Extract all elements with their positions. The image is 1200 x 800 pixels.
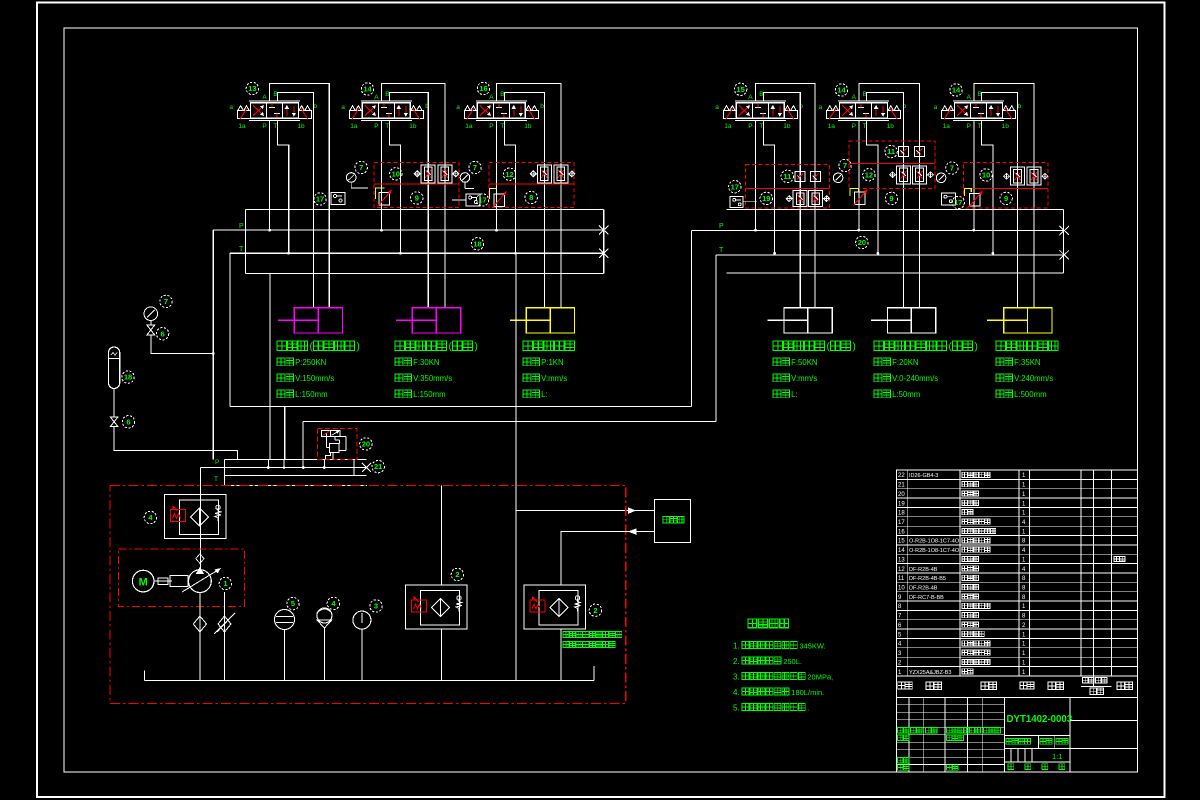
- gauge E: [936, 173, 946, 183]
- svg-text:1b: 1b: [1002, 123, 1010, 130]
- left bus top rail: [245, 208, 603, 210]
- svg-text:DF-R2B-4B: DF-R2B-4B: [909, 567, 938, 573]
- svg-text:180L/min.: 180L/min.: [791, 688, 824, 697]
- air breather: [317, 608, 332, 623]
- svg-text:1b: 1b: [887, 123, 895, 130]
- technical requirements title: [748, 619, 757, 628]
- valve 13 wire P down to P rail: [269, 120, 271, 230]
- balloon label 18: [471, 238, 483, 250]
- valve 14 left cell crossed arrows: [957, 105, 968, 116]
- balloon label 9: [411, 192, 423, 204]
- balloon label 14: [950, 84, 962, 96]
- svg-text:L:150mm: L:150mm: [413, 390, 446, 399]
- valve 13 solenoid end boxes: [237, 111, 250, 119]
- small sq C1: [795, 172, 805, 182]
- balloon label 14: [835, 84, 847, 96]
- check valve E1: [1011, 167, 1025, 185]
- directional valve 14 body: [362, 103, 410, 119]
- valve 13 wire A up-over to cylinder: [270, 84, 330, 308]
- valve 16 left cell crossed arrows: [480, 105, 491, 116]
- svg-text:A: A: [967, 94, 972, 101]
- variable pump: [189, 570, 212, 593]
- check valve C1: [793, 191, 807, 207]
- svg-text:1b: 1b: [524, 123, 532, 130]
- balloon label 6: [122, 416, 134, 428]
- svg-text:YZX25A&JBZ-B3: YZX25A&JBZ-B3: [909, 670, 952, 676]
- svg-text:17: 17: [316, 195, 324, 204]
- check valve D1: [897, 166, 911, 184]
- svg-text:1: 1: [223, 579, 227, 588]
- right bus T riser: [715, 255, 717, 422]
- red dashed box C (valve 15 module): [746, 165, 830, 209]
- check valve E2: [1027, 167, 1041, 185]
- cylinder body: [888, 308, 936, 333]
- valve 13 left cell crossed arrows: [253, 105, 264, 116]
- svg-text:F:20KN: F:20KN: [892, 358, 918, 367]
- balloon label 17: [314, 193, 326, 205]
- svg-text:DYT1402-0003: DYT1402-0003: [1007, 714, 1073, 725]
- JZB cooling unit box: [655, 499, 691, 542]
- manifold rail 1: [225, 459, 367, 461]
- svg-text:F:50KN: F:50KN: [791, 358, 817, 367]
- right bus T rail: [716, 254, 1064, 256]
- svg-text:250L.: 250L.: [783, 657, 802, 666]
- filter warning note: [563, 632, 569, 638]
- return filter 2: [524, 585, 586, 629]
- svg-text:P: P: [489, 123, 493, 130]
- balloon label 7: [469, 161, 481, 173]
- valve 14 center cell closed: [858, 107, 864, 109]
- relief pilot valve red box: [318, 429, 357, 460]
- svg-text:20: 20: [898, 492, 905, 498]
- left bus P rail: [213, 229, 604, 231]
- balloon label 13: [246, 82, 258, 94]
- svg-text:17: 17: [954, 198, 962, 207]
- valve 14 wire B up-over to cylinder: [982, 93, 1018, 308]
- small sq D2: [915, 147, 925, 157]
- svg-text:6: 6: [126, 417, 130, 426]
- svg-text:): ): [357, 342, 360, 353]
- title block green annotations: [898, 728, 904, 734]
- svg-text:7: 7: [473, 163, 477, 172]
- svg-text:20: 20: [362, 440, 370, 449]
- valve 16 center cell closed: [496, 107, 502, 109]
- valve 14 wire P down to P rail: [973, 120, 975, 230]
- svg-text:21: 21: [898, 483, 905, 489]
- balloon label 19: [760, 192, 772, 204]
- svg-text:P:250KN: P:250KN: [295, 358, 326, 367]
- valve 16 right cell arrows: [513, 106, 515, 116]
- horizontal link P->right bus: [230, 406, 692, 408]
- yellow pilot line B: [490, 189, 498, 200]
- valve 15 left cell crossed arrows: [739, 105, 750, 116]
- valve 14 right cell arrows: [875, 106, 877, 116]
- svg-text:14: 14: [952, 86, 961, 95]
- small sq C2: [811, 172, 821, 182]
- balloon label 8: [525, 191, 537, 203]
- svg-text:T: T: [385, 123, 389, 130]
- svg-text:14: 14: [363, 85, 372, 94]
- valve 13 wire B up-over to cylinder: [277, 93, 313, 308]
- left bus T rail: [230, 252, 604, 254]
- svg-text:1a: 1a: [238, 123, 246, 130]
- svg-text:17: 17: [731, 182, 739, 191]
- svg-text:1b: 1b: [783, 123, 791, 130]
- svg-text:19: 19: [762, 194, 770, 203]
- plug X left bus T: [599, 249, 609, 258]
- svg-text:7: 7: [164, 297, 168, 306]
- svg-text:L:500mm: L:500mm: [1014, 390, 1047, 399]
- valve 14 wire A up-over to cylinder: [859, 84, 920, 308]
- valve 14 center cell closed: [973, 107, 979, 109]
- svg-text:1b: 1b: [297, 123, 305, 130]
- svg-text:6: 6: [161, 329, 165, 338]
- right bus top rail: [727, 208, 1064, 210]
- svg-text:P: P: [262, 123, 266, 130]
- valve 14 wire P down to P rail: [381, 120, 383, 230]
- valve 15 center cell closed: [755, 107, 761, 109]
- cylinder body: [1004, 308, 1052, 333]
- right bus P riser: [691, 231, 693, 407]
- svg-text:9: 9: [1004, 194, 1008, 203]
- valve 14 wire B up-over to cylinder: [389, 93, 428, 308]
- cylinder body: [294, 308, 342, 333]
- svg-text:V:240mm/s: V:240mm/s: [1014, 374, 1053, 383]
- svg-text:12: 12: [505, 170, 513, 179]
- right bus P rail: [692, 230, 1065, 232]
- throttle branch: [224, 592, 226, 680]
- balloon label 12: [863, 169, 875, 181]
- svg-text:A: A: [262, 94, 267, 101]
- return filter 1: [441, 486, 443, 586]
- svg-text:11: 11: [898, 576, 905, 582]
- manifold rail 3: [225, 475, 367, 477]
- thermometer: [353, 611, 371, 629]
- pump outlet riser: [199, 468, 201, 571]
- check valve below pump: [199, 593, 201, 681]
- valve 16 solenoid end boxes: [464, 111, 477, 119]
- balloon label 11: [885, 145, 897, 157]
- svg-text:18: 18: [124, 373, 132, 382]
- svg-text:A: A: [374, 94, 379, 101]
- svg-text:1a: 1a: [943, 123, 951, 130]
- svg-text:O-R2B-1O8-1C7-4O: O-R2B-1O8-1C7-4O: [909, 539, 960, 545]
- svg-text:7: 7: [359, 163, 363, 172]
- svg-text:M: M: [139, 576, 148, 588]
- svg-text:1a: 1a: [724, 123, 732, 130]
- svg-text:A: A: [748, 94, 753, 101]
- directional valve 16 body: [477, 103, 525, 119]
- svg-text:V:0-240mm/s: V:0-240mm/s: [892, 374, 938, 383]
- pump sub unit red box: [119, 549, 245, 607]
- balloon label 4: [144, 511, 156, 523]
- svg-text:13: 13: [898, 557, 905, 563]
- red dashed box B (valve 16 module): [489, 163, 574, 208]
- gauge accumulator top: [144, 307, 158, 321]
- balloon label 9: [885, 192, 897, 204]
- valve 14 solenoid end boxes: [349, 111, 362, 119]
- svg-text:3.: 3.: [733, 673, 740, 682]
- svg-text:): ): [975, 342, 978, 353]
- drop into manifold x303.1: [302, 422, 304, 460]
- yellow pilot line D: [850, 189, 859, 197]
- balloon label 7: [946, 162, 958, 174]
- pressure switch PS2: [466, 194, 480, 206]
- svg-text:10: 10: [898, 586, 905, 592]
- valve 14 solenoid end boxes: [942, 111, 955, 119]
- balloon label 20: [856, 236, 868, 248]
- svg-text:V:mm/s: V:mm/s: [791, 374, 817, 383]
- svg-text:V:mm/s: V:mm/s: [541, 374, 567, 383]
- right bus end vertical: [1063, 209, 1065, 272]
- valve 14 solenoid end boxes: [827, 111, 840, 119]
- svg-text:17: 17: [898, 520, 905, 526]
- svg-text:9: 9: [415, 194, 419, 203]
- valve 13 wire T down to T rail: [277, 120, 288, 253]
- valve 13 right cell arrows: [286, 106, 288, 116]
- svg-text:DF-R2B-4B: DF-R2B-4B: [909, 586, 938, 592]
- HP filter assembly: [165, 494, 227, 538]
- reducing valve D: [855, 192, 866, 205]
- plug X manifold: [362, 463, 371, 472]
- electric motor M: [132, 570, 154, 592]
- balloon label 5: [287, 597, 299, 609]
- svg-text:T: T: [239, 246, 244, 253]
- svg-text:15: 15: [898, 539, 905, 545]
- balloon label 17: [729, 181, 741, 193]
- svg-text:L:50mm: L:50mm: [892, 390, 920, 399]
- svg-text:2: 2: [593, 606, 597, 615]
- parts table column lines: [906, 470, 908, 676]
- gauge A: [346, 173, 356, 183]
- svg-text:T: T: [759, 123, 763, 130]
- yellow pilot line A: [376, 188, 385, 199]
- svg-text:1.: 1.: [733, 642, 740, 651]
- check valve C2: [809, 191, 823, 207]
- check valve D2: [913, 166, 927, 184]
- svg-text:P: P: [852, 123, 856, 130]
- svg-text:V:150mm/s: V:150mm/s: [295, 374, 334, 383]
- svg-text:8: 8: [529, 193, 533, 202]
- coupling: [154, 580, 172, 582]
- svg-text:5.: 5.: [733, 704, 740, 713]
- svg-text:): ): [853, 342, 856, 353]
- svg-text:345KW.: 345KW.: [799, 642, 825, 651]
- drop into manifold x284.7: [284, 407, 286, 460]
- svg-text:A: A: [489, 94, 494, 101]
- balloon label 20: [360, 438, 372, 450]
- reducing valve B: [494, 194, 505, 207]
- plug X right bus T: [1060, 250, 1070, 259]
- horizontal link T->right bus: [303, 421, 716, 423]
- balloon label 2: [451, 568, 463, 580]
- svg-text:T: T: [273, 123, 277, 130]
- check valve B1: [537, 165, 551, 183]
- shutoff valve 6b: [110, 417, 118, 422]
- svg-text:13: 13: [248, 84, 256, 93]
- left bus end verticals: [244, 209, 246, 273]
- svg-text:P: P: [967, 123, 971, 130]
- svg-text:12: 12: [865, 170, 873, 179]
- svg-text:T: T: [719, 247, 724, 254]
- diamond node above pump: [196, 554, 204, 564]
- svg-text:5: 5: [291, 599, 295, 608]
- left bus bottom rail: [245, 272, 603, 274]
- accumulator drain line: [113, 389, 115, 417]
- title block left grid: [908, 697, 910, 772]
- JZB return line: [561, 532, 655, 585]
- svg-text:15: 15: [736, 85, 744, 94]
- svg-text:19: 19: [898, 501, 905, 507]
- reducing valve E: [970, 194, 981, 207]
- check valve B2: [554, 165, 568, 183]
- svg-text:11: 11: [887, 147, 895, 156]
- svg-text:DF-RC7-B-BB: DF-RC7-B-BB: [909, 595, 944, 601]
- valve 14 wire B up-over to cylinder: [867, 93, 904, 308]
- parts table header row: [896, 675, 1137, 677]
- svg-text:10: 10: [392, 169, 400, 178]
- directional valve 14 body: [955, 103, 1003, 119]
- svg-text:1a: 1a: [465, 123, 473, 130]
- pilot relief symbols: [322, 430, 331, 436]
- balloon label 7: [839, 159, 851, 171]
- parts list table frame: [896, 470, 1137, 676]
- plug X right bus P: [1060, 226, 1070, 235]
- svg-text:16: 16: [898, 529, 905, 535]
- red dashed box E (valve 14c module): [964, 162, 1048, 208]
- valve 14 right cell arrows: [990, 106, 992, 116]
- balloon label 16: [477, 82, 489, 94]
- svg-text:9: 9: [889, 194, 893, 203]
- balloon label 21: [372, 460, 384, 472]
- svg-text:16: 16: [479, 84, 487, 93]
- svg-text:1a: 1a: [828, 123, 836, 130]
- manifold left vertical: [224, 460, 226, 486]
- svg-text:P: P: [719, 223, 724, 230]
- check valve A1: [421, 165, 435, 183]
- valve 16 wire T down to T rail: [504, 120, 515, 253]
- svg-text:a: a: [819, 104, 823, 111]
- svg-text:ID26-GB4-3: ID26-GB4-3: [909, 473, 938, 479]
- svg-text:10: 10: [982, 171, 990, 180]
- P riser left: [212, 230, 214, 459]
- valve 14 center cell closed: [381, 107, 387, 109]
- balloon label 9: [1000, 192, 1012, 204]
- svg-text:7: 7: [950, 164, 954, 173]
- svg-text:11: 11: [783, 172, 791, 181]
- balloon label 15: [734, 83, 746, 95]
- valve 16 wire A up-over to cylinder: [497, 84, 561, 308]
- svg-text:L:: L:: [791, 390, 798, 399]
- valve 14 wire T down to T rail: [867, 120, 878, 253]
- svg-text:18: 18: [898, 511, 905, 517]
- title block right cells: [1070, 720, 1138, 722]
- svg-text:T: T: [978, 123, 982, 130]
- balloon label 10: [390, 168, 402, 180]
- svg-text:P: P: [239, 223, 244, 230]
- drop into manifold x270: [269, 273, 271, 459]
- svg-text:P: P: [215, 459, 219, 466]
- valve 14 wire A up-over to cylinder: [974, 84, 1034, 308]
- drawing number box: [1003, 697, 1005, 772]
- reducing valve A: [379, 193, 390, 206]
- manifold nodes: [267, 460, 269, 468]
- svg-text:12: 12: [898, 567, 905, 573]
- hydraulic power unit red dash-dot boundary: [110, 486, 626, 704]
- balloon label 10: [980, 169, 992, 181]
- balloon label 4: [327, 597, 339, 609]
- svg-text:2.: 2.: [733, 657, 740, 666]
- pressure switch PS4: [941, 193, 955, 205]
- balloon label 12: [503, 168, 515, 180]
- balloon label 2: [589, 604, 601, 616]
- balloon label 6: [156, 328, 168, 340]
- svg-text:1:1: 1:1: [1052, 752, 1062, 761]
- balloon label 11: [781, 170, 793, 182]
- valve 15 wire A up-over to cylinder: [756, 84, 815, 308]
- manifold rail 2: [225, 467, 367, 469]
- directional valve 14 body: [840, 103, 888, 119]
- valve 14 wire A up-over to cylinder: [382, 84, 445, 308]
- svg-text:18: 18: [473, 239, 481, 248]
- svg-text:14: 14: [837, 86, 846, 95]
- svg-text:L:150mm: L:150mm: [295, 390, 328, 399]
- leak line to JZB unit: [515, 253, 517, 680]
- svg-text:20MPa,: 20MPa,: [807, 673, 833, 682]
- svg-text:O-R2B-1O8-1C7-4O: O-R2B-1O8-1C7-4O: [909, 548, 960, 554]
- balloon label 7: [160, 295, 172, 307]
- valve 14 right cell arrows: [398, 106, 400, 116]
- valve 15 right cell arrows: [772, 106, 774, 116]
- svg-text:b: b: [1018, 103, 1022, 110]
- svg-text:T: T: [500, 123, 504, 130]
- valve 15 solenoid end boxes: [723, 111, 736, 119]
- svg-text:3: 3: [374, 602, 378, 611]
- small sq D1: [899, 147, 909, 157]
- valve 14 wire P down to P rail: [858, 120, 860, 230]
- level gauge: [275, 610, 295, 630]
- svg-text:14: 14: [898, 548, 905, 554]
- gauge B: [460, 173, 470, 183]
- svg-text:DF-R2B-4B-B5: DF-R2B-4B-B5: [909, 576, 946, 582]
- svg-text:P: P: [374, 123, 378, 130]
- svg-text:20: 20: [858, 238, 866, 247]
- balloon label 7: [355, 161, 367, 173]
- valve 16 wire B up-over to cylinder: [504, 93, 544, 308]
- gauge D: [833, 173, 843, 183]
- svg-text:V:350mm/s: V:350mm/s: [413, 374, 452, 383]
- svg-text:P: P: [748, 123, 752, 130]
- svg-text:a: a: [229, 104, 233, 111]
- check valve A2: [438, 165, 452, 183]
- valve 15 wire B up-over to cylinder: [763, 93, 800, 308]
- line to P riser: [151, 335, 213, 353]
- svg-text:T: T: [214, 476, 218, 483]
- svg-text:a: a: [934, 104, 938, 111]
- svg-text:A: A: [852, 94, 857, 101]
- valve 14 wire T down to T rail: [982, 120, 993, 253]
- yellow pilot line E: [965, 189, 972, 197]
- tank bottom bus: [144, 679, 594, 681]
- directional valve 15 body: [736, 103, 784, 119]
- svg-text:a: a: [341, 104, 345, 111]
- directional valve 13 body: [250, 103, 298, 119]
- svg-text:1b: 1b: [409, 123, 417, 130]
- valve 14 wire T down to T rail: [389, 120, 400, 253]
- valve 16 wire P down to P rail: [496, 120, 498, 230]
- cylinder port lines: [277, 341, 287, 351]
- svg-text:a: a: [715, 104, 719, 111]
